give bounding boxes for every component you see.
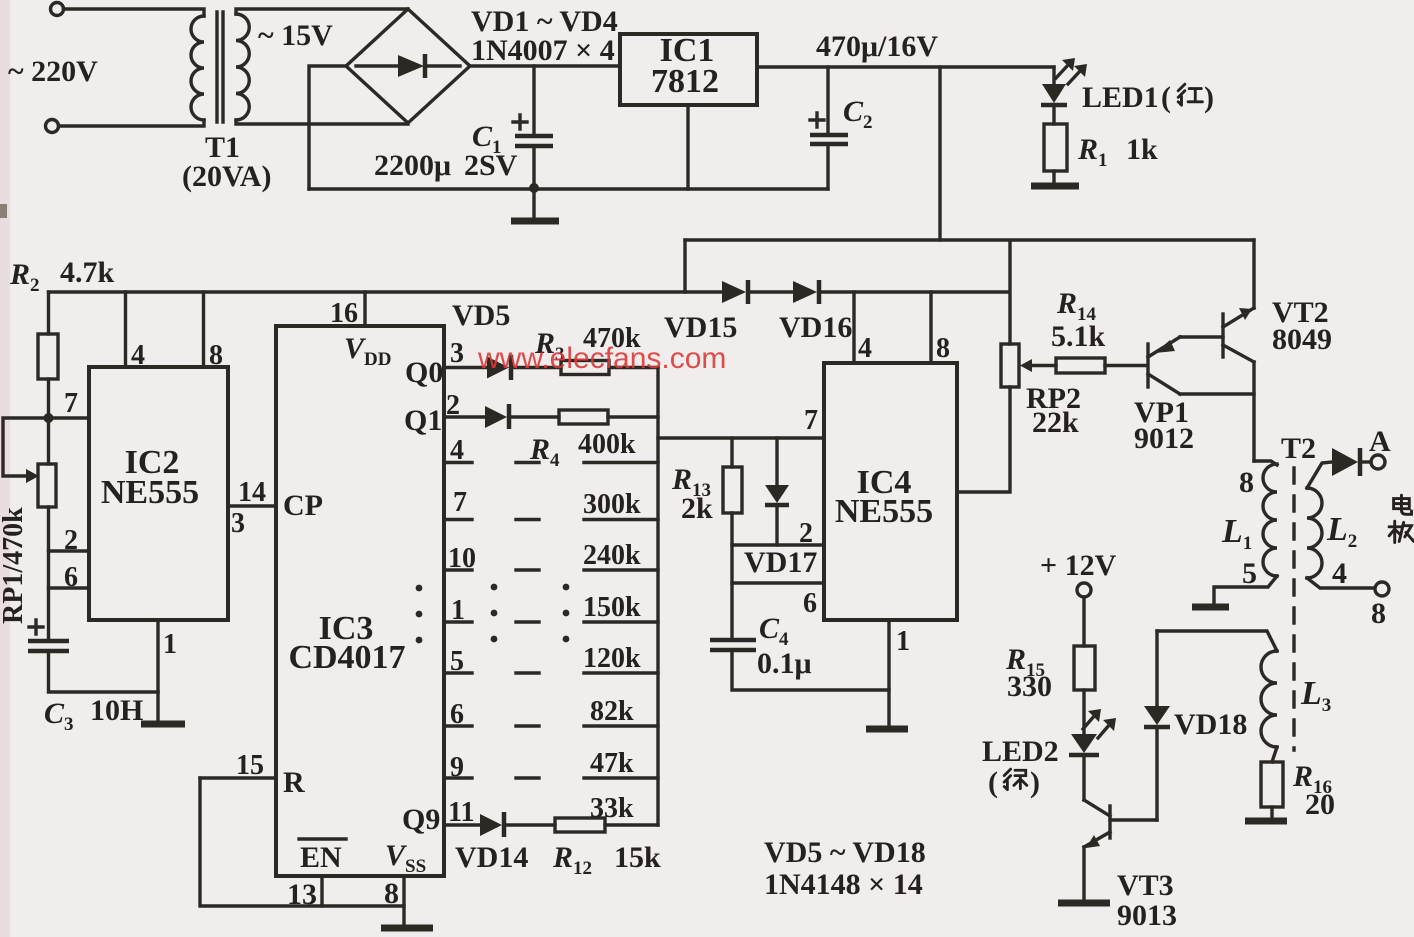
- LED2: [1071, 734, 1097, 753]
- wire IC3 pin8: [402, 876, 405, 925]
- wire row pin10 segment: [584, 568, 658, 571]
- ground R1: [1031, 183, 1079, 190]
- svg-text:VT3: VT3: [1117, 869, 1174, 902]
- wire row pin9 stub: [444, 776, 472, 779]
- wire C1 top: [532, 66, 535, 133]
- capacitor C4: [710, 638, 756, 643]
- svg-text:5: 5: [1242, 557, 1257, 590]
- svg-text:A: A: [1369, 425, 1391, 458]
- svg-text:4: 4: [131, 340, 145, 371]
- svg-text:150k: 150k: [583, 592, 641, 623]
- wire IC4 pin2: [732, 543, 824, 546]
- scan smudge left edge: [0, 204, 7, 218]
- svg-text:7: 7: [64, 388, 78, 419]
- wire row pin10 stub: [444, 568, 472, 571]
- svg-text:7: 7: [453, 487, 467, 518]
- svg-text:400k: 400k: [578, 429, 636, 460]
- svg-text:Q0: Q0: [405, 356, 443, 389]
- RP1 wiper wire: [3, 418, 49, 476]
- counter IC3 CD4017 box: [276, 326, 444, 876]
- wire row pin5 stub: [444, 671, 472, 674]
- wire T1 secondary top to bridge: [236, 9, 408, 14]
- wire L2 top to diode: [1307, 462, 1332, 488]
- wire bridge left vertex down to ground rail: [309, 66, 346, 189]
- wire VT2 emitter to rail B: [1252, 240, 1255, 308]
- resistor R15: [1074, 646, 1095, 690]
- svg-text:VD5: VD5: [452, 299, 510, 332]
- wire row pin6 stub: [444, 724, 472, 727]
- ladder ellipsis dots col1: [491, 584, 498, 591]
- wire RP2 top: [1008, 241, 1011, 344]
- svg-text:9012: 9012: [1134, 422, 1194, 455]
- wire VT3 base to VD18: [1110, 818, 1157, 821]
- svg-text:LED1: LED1: [1082, 81, 1159, 114]
- LED1 light arrows: [1056, 64, 1069, 78]
- svg-text:Q1: Q1: [404, 404, 442, 437]
- VT3 base bar: [1108, 806, 1111, 838]
- wire VD17 top: [775, 438, 778, 485]
- wire C4 bottom to pin1: [732, 652, 889, 690]
- wire VT3 emitter to ground: [1082, 847, 1085, 900]
- label EN with overline: [299, 837, 346, 840]
- svg-text:82k: 82k: [590, 696, 634, 727]
- transformer T1 core: [215, 12, 218, 122]
- AC terminal top: [51, 3, 64, 16]
- wire LED1 to R1: [1052, 107, 1055, 124]
- wire IC4 pin4: [852, 292, 855, 363]
- resistor R14: [1056, 358, 1105, 373]
- wire VD17 bottom: [775, 507, 778, 545]
- wire IC4 pin8: [929, 292, 932, 363]
- transistor VT2 base bar: [1221, 314, 1224, 357]
- wire L1 bottom to ground: [1214, 576, 1277, 603]
- wire +12V to R15: [1082, 597, 1085, 646]
- wire IC1 ground pin: [686, 105, 689, 189]
- wire row pin4 dash: [516, 461, 539, 464]
- bridge inner diode: [398, 55, 424, 77]
- wire VP1 emitter to VT2 base: [1180, 335, 1223, 338]
- VP1 collector: [1148, 374, 1180, 394]
- wire rail C right: [819, 290, 1008, 293]
- wire row pin5 dash: [516, 671, 539, 674]
- terminal +12V: [1077, 583, 1091, 597]
- C1 plus sign: [513, 115, 527, 129]
- svg-text:CD4017: CD4017: [288, 639, 405, 676]
- svg-text:VD15: VD15: [664, 311, 737, 344]
- VT2 emitter with arrow: [1223, 308, 1254, 327]
- wire Q9 row: [444, 823, 480, 826]
- svg-text:www.elecfans.com: www.elecfans.com: [477, 342, 726, 375]
- scan edge tint left: [0, 0, 10, 937]
- wire IC2 pin8: [202, 292, 205, 367]
- diode VD18: [1144, 706, 1170, 725]
- wire row pin1 stub: [444, 620, 472, 623]
- svg-text:2: 2: [799, 518, 813, 549]
- ground L1 pin5: [1192, 604, 1229, 611]
- transformer T1 primary winding: [191, 16, 204, 120]
- svg-text:EN: EN: [300, 841, 342, 874]
- svg-text:6: 6: [64, 562, 78, 593]
- resistor R4: [559, 410, 608, 424]
- svg-text:Q9: Q9: [402, 803, 440, 836]
- svg-text:LED2: LED2: [982, 735, 1059, 768]
- svg-text:2: 2: [64, 525, 78, 556]
- wire IC4 pin7 from ladder bus: [658, 436, 824, 439]
- svg-text:0.1μ: 0.1μ: [757, 647, 812, 680]
- resistor R2: [38, 334, 58, 379]
- wire IC3 pin16: [363, 292, 366, 326]
- diode output A: [1332, 448, 1358, 476]
- capacitor C3: [28, 639, 69, 644]
- resistor R1: [1044, 124, 1067, 171]
- svg-text:(: (: [1161, 81, 1171, 114]
- wire row pin10 dash: [516, 568, 539, 571]
- VP1 emitter with arrow: [1148, 337, 1180, 357]
- svg-text:CP: CP: [283, 489, 323, 522]
- svg-text:~ 15V: ~ 15V: [258, 19, 333, 52]
- resistor R3: [561, 361, 609, 375]
- wire row pin5 segment: [584, 671, 658, 674]
- wire row pin1 dash: [516, 620, 539, 623]
- node C1 ground junction: [529, 183, 539, 193]
- svg-text:RP1/470k: RP1/470k: [0, 507, 29, 624]
- svg-text:14: 14: [238, 477, 266, 508]
- wire R12 to bus: [605, 823, 658, 826]
- wire drop rail A to rail B: [938, 67, 941, 240]
- RP1 wiper arrow: [26, 469, 39, 483]
- terminal 8: [1375, 582, 1389, 596]
- wire row pin4 segment: [584, 461, 658, 464]
- wire L2 bottom pin4: [1307, 578, 1374, 588]
- transformer T2 core dashed: [1292, 468, 1295, 750]
- svg-text:VD17: VD17: [744, 546, 817, 579]
- AC terminal bottom: [46, 120, 59, 133]
- potentiometer RP1: [38, 464, 56, 507]
- svg-text:16: 16: [330, 298, 358, 329]
- wire VT2 to L1 top: [1254, 461, 1277, 465]
- wire RP1 to C3: [47, 507, 50, 638]
- svg-text:4.7k: 4.7k: [60, 256, 115, 289]
- wire Q0 row: [444, 366, 487, 369]
- svg-text:~ 220V: ~ 220V: [8, 55, 98, 88]
- svg-text:7: 7: [804, 405, 818, 436]
- svg-text:1: 1: [896, 626, 910, 657]
- wire AC bottom to T1 primary: [59, 120, 205, 126]
- wire IC4 pin6: [732, 581, 824, 584]
- svg-text:8: 8: [209, 340, 223, 371]
- wire C3 bottom to pin1: [49, 653, 159, 692]
- wire IC3 pin13: [320, 876, 323, 906]
- wire ladder bus: [656, 368, 659, 826]
- svg-text:330: 330: [1007, 670, 1052, 703]
- op IC1 7812 box: [620, 34, 757, 105]
- transistor VP1 base bar: [1146, 344, 1149, 387]
- svg-text:4: 4: [1332, 557, 1347, 590]
- wire IC2 pin3 to IC3 pin14: [228, 504, 276, 507]
- wire VD14 to R12: [504, 823, 555, 826]
- svg-text:8049: 8049: [1272, 323, 1332, 356]
- svg-text:2SV: 2SV: [464, 149, 518, 182]
- wire R14 to VP1 base: [1105, 364, 1146, 367]
- capacitor C2: [810, 133, 848, 138]
- svg-text:120k: 120k: [583, 643, 641, 674]
- wire VD18 upper: [1155, 631, 1158, 706]
- LED2 light arrows: [1083, 715, 1095, 729]
- wire row pin6 dash: [516, 724, 539, 727]
- VT2 collector: [1223, 345, 1254, 362]
- svg-text:6: 6: [803, 588, 817, 619]
- svg-text:VD18: VD18: [1174, 708, 1247, 741]
- wire IC2 pin6: [49, 586, 90, 589]
- svg-text:8: 8: [1371, 597, 1386, 630]
- svg-text:22k: 22k: [1032, 406, 1079, 439]
- wire IC2 pin7: [49, 416, 90, 419]
- svg-text:): ): [1030, 766, 1040, 799]
- wire R4 to bus: [608, 415, 658, 418]
- svg-text:33k: 33k: [590, 793, 634, 824]
- svg-text:300k: 300k: [583, 489, 641, 520]
- svg-text:3: 3: [450, 338, 464, 369]
- ground IC4 pin1: [866, 726, 908, 733]
- wire VD15 to VD16: [748, 290, 793, 293]
- ground VT3: [1058, 900, 1110, 907]
- wire R1 to ground: [1052, 171, 1055, 183]
- ladder ellipsis dots col2: [563, 584, 570, 591]
- svg-text:1N4007 × 4: 1N4007 × 4: [471, 34, 615, 67]
- wire VD18 top to L3: [1157, 631, 1277, 651]
- svg-text:(20VA): (20VA): [182, 160, 271, 193]
- wire row pin7 stub: [444, 518, 472, 521]
- svg-text:10H: 10H: [90, 694, 143, 727]
- ground C3: [156, 692, 159, 721]
- wire row pin7 segment: [584, 518, 658, 521]
- C2 plus sign: [810, 113, 824, 127]
- bridge inner diode lead: [356, 64, 398, 67]
- wire VD18 lower: [1155, 729, 1158, 820]
- node R2/RP1/pin7: [44, 413, 54, 423]
- wire IC4 pin3 to RP2: [957, 387, 1010, 492]
- svg-text:1N4148 × 14: 1N4148 × 14: [764, 868, 923, 901]
- winding L2: [1307, 488, 1322, 578]
- svg-text:5.1k: 5.1k: [1051, 320, 1106, 353]
- svg-text:VD14: VD14: [455, 841, 528, 874]
- timer IC4 NE555 box: [824, 363, 957, 620]
- svg-text:240k: 240k: [583, 540, 641, 571]
- wire IC2 pin4: [124, 292, 127, 367]
- svg-text:13: 13: [287, 878, 317, 911]
- svg-text:20: 20: [1305, 788, 1335, 821]
- wire R13 bottom to C4: [730, 513, 733, 638]
- wire bridge right vertex to IC1: [470, 64, 620, 67]
- LED1: [1042, 84, 1066, 103]
- svg-text:): ): [1204, 81, 1214, 114]
- wire rail C left: [49, 290, 723, 293]
- IC3 inner ellipsis dots: [416, 585, 423, 592]
- svg-text:15k: 15k: [614, 841, 661, 874]
- wire R2 to node: [47, 379, 50, 418]
- svg-text:7812: 7812: [651, 63, 719, 100]
- svg-text:T2: T2: [1281, 432, 1316, 465]
- wire R16 to ground: [1270, 807, 1273, 818]
- wire pin15 loop to pin13: [200, 778, 404, 906]
- transformer T1 secondary winding: [236, 14, 249, 120]
- svg-text:47k: 47k: [590, 748, 634, 779]
- diode VD15: [722, 281, 746, 303]
- svg-text:VD16: VD16: [779, 311, 852, 344]
- capacitor C1: [515, 134, 553, 139]
- wire VD6 to R4: [509, 415, 559, 418]
- svg-text:8: 8: [1239, 466, 1254, 499]
- svg-text:NE555: NE555: [835, 493, 933, 530]
- ground R16: [1245, 818, 1287, 825]
- wire IC2 pin1: [156, 620, 159, 692]
- VT3 emitter with arrow: [1084, 832, 1110, 847]
- wire node to RP1: [47, 418, 50, 464]
- svg-text:2k: 2k: [681, 492, 713, 525]
- wire row pin7 dash: [516, 518, 539, 521]
- svg-text:15: 15: [236, 750, 264, 781]
- wire Q1 row: [444, 415, 485, 418]
- wire AC top to T1 primary: [64, 9, 205, 16]
- terminal A: [1371, 455, 1385, 469]
- diode VD14: [480, 814, 502, 836]
- timer IC2 NE555 box: [89, 367, 228, 620]
- label dian (electrode): [1394, 495, 1412, 514]
- wire LED1 feed: [1052, 67, 1055, 84]
- bridge rectifier VD1-VD4 diamond: [346, 9, 470, 123]
- wire LED2 to VT3: [1082, 757, 1085, 800]
- diode VD5: [487, 357, 509, 379]
- C3 plus sign: [29, 620, 43, 634]
- wire IC2 pin2: [49, 549, 90, 552]
- wire row pin1 segment: [584, 620, 658, 623]
- ground C1: [532, 188, 535, 218]
- resistor R13: [723, 467, 742, 513]
- label ji (electrode): [1389, 521, 1414, 542]
- svg-text:R: R: [283, 766, 305, 799]
- svg-text:470μ/16V: 470μ/16V: [816, 30, 938, 63]
- wire R15 to LED2: [1082, 690, 1085, 734]
- wire VT2 collector down to T2: [1252, 362, 1255, 461]
- svg-text:+ 12V: + 12V: [1040, 549, 1117, 582]
- wire +12V rail B: [685, 238, 1254, 241]
- svg-text:1: 1: [163, 629, 177, 660]
- wire row pin9 segment: [584, 776, 658, 779]
- wire T1 secondary bottom to bridge bottom vertex: [236, 120, 408, 124]
- ground rail power supply: [309, 187, 828, 190]
- wire L3 to R16: [1272, 747, 1277, 762]
- wire row pin4 stub: [444, 461, 472, 464]
- wire R2 top: [47, 292, 50, 334]
- resistor R16: [1261, 762, 1283, 807]
- transistor VT3 collector: [1084, 800, 1110, 816]
- RP2 wiper arrow: [1020, 359, 1032, 372]
- wire row pin9 dash: [516, 776, 539, 779]
- wire R13 top: [730, 438, 733, 467]
- svg-text:4: 4: [858, 333, 872, 364]
- diode VD16: [793, 281, 817, 303]
- svg-text:NE555: NE555: [101, 474, 199, 511]
- wire drop rail B to rail C: [683, 240, 686, 292]
- wire IC3 pin15: [200, 776, 276, 779]
- diode VD17: [765, 485, 789, 503]
- svg-text:9013: 9013: [1117, 899, 1177, 932]
- ground IC3 pin8: [381, 925, 433, 932]
- svg-text:2200μ: 2200μ: [374, 149, 451, 182]
- svg-text:3: 3: [231, 508, 245, 539]
- potentiometer RP2: [1001, 344, 1019, 387]
- wire VD5 to R3: [511, 366, 561, 369]
- wire row pin6 segment: [584, 724, 658, 727]
- diode VD6: [485, 406, 507, 428]
- wire +12V rail A: [757, 65, 1054, 68]
- winding L1: [1263, 464, 1277, 576]
- svg-text:8: 8: [384, 877, 399, 910]
- wire C2 top: [826, 67, 829, 132]
- hanzi hong (red): [1178, 84, 1202, 105]
- winding L3: [1261, 651, 1277, 747]
- wire IC4 pin1: [887, 620, 890, 726]
- svg-text:(: (: [988, 766, 998, 799]
- wire R3 to bus: [609, 366, 658, 369]
- wire C1 bottom: [532, 148, 535, 188]
- svg-text:VD5 ~ VD18: VD5 ~ VD18: [764, 836, 926, 869]
- resistor R12: [555, 818, 605, 832]
- svg-text:8: 8: [936, 333, 950, 364]
- wire C2 bottom: [826, 146, 829, 189]
- wire VP1 collector to VT2 collector node: [1180, 392, 1254, 395]
- svg-text:1k: 1k: [1126, 133, 1158, 166]
